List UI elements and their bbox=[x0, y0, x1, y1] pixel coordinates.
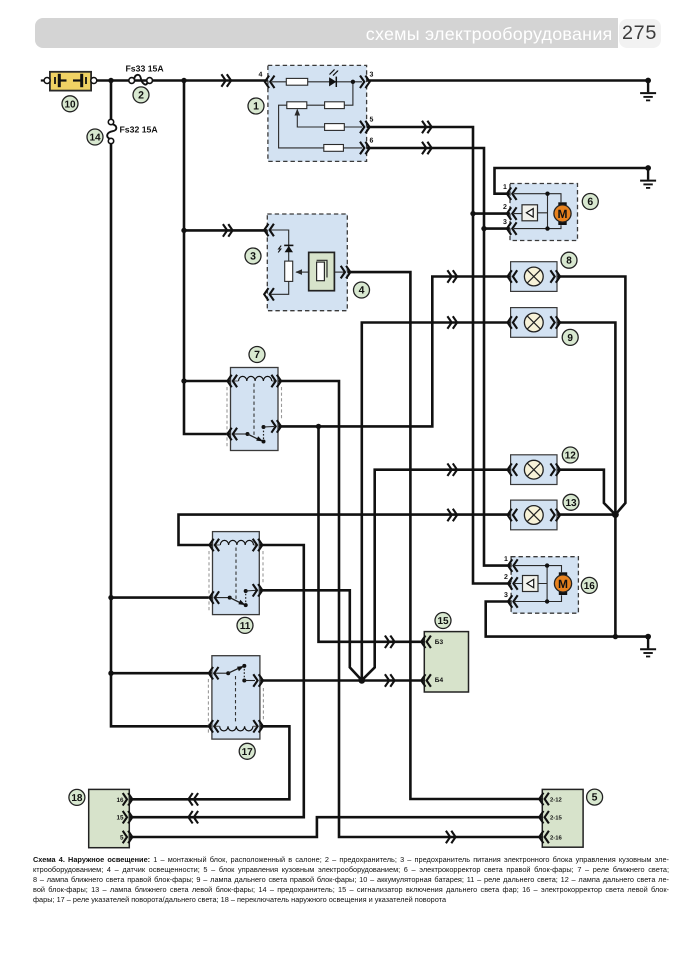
relay 7 (low beam relay) bbox=[227, 368, 282, 451]
node bus 184 / block3 feed bbox=[181, 228, 186, 233]
chevron on lamp 12 feed wire bbox=[448, 464, 457, 475]
wire block1 R4 to pin5 bbox=[344, 126, 362, 128]
label 5 bbox=[587, 789, 603, 805]
lamp 9 (high beam right) bbox=[508, 308, 561, 338]
wiper arrow of resistor R2 bbox=[295, 109, 301, 116]
light arrows above diode bbox=[330, 70, 338, 76]
ground top right (for block1 pin3 line) bbox=[640, 78, 656, 101]
wire node B3: relay7 out branch down to block 15 pin B3 bbox=[319, 426, 424, 641]
pin numbers of block 1 bbox=[259, 72, 374, 145]
chevron on lamp 9 feed wire bbox=[448, 317, 457, 328]
wire block1 row pin4 to diode to pin3 bbox=[272, 81, 362, 83]
lamp 8 (low beam right) bbox=[508, 262, 561, 292]
motor M of corrector 16 bbox=[559, 572, 567, 577]
svg-text:M: M bbox=[558, 207, 568, 221]
wire block1 wiper to R4 bbox=[297, 110, 324, 128]
label 4 bbox=[354, 282, 370, 298]
zener diode of block 3 bbox=[285, 246, 293, 252]
wire block1 pin3 to ground (y=80.5) bbox=[366, 79, 648, 82]
node bus 184 top bbox=[181, 78, 186, 83]
wire relay 11 coil out down to connector 18 pin 15 bbox=[131, 545, 304, 817]
connector 5 (body control unit) bbox=[539, 789, 583, 847]
corrector control unit (triangle) of block 16 bbox=[523, 576, 539, 592]
label 13 bbox=[563, 494, 579, 510]
wire relay 11 contact out to node B4 (via x=350 down) bbox=[261, 590, 362, 680]
ground bottom right (for block 16 pin3 line) bbox=[640, 634, 656, 657]
svg-text:1: 1 bbox=[503, 184, 507, 191]
svg-text:13: 13 bbox=[565, 498, 577, 509]
block 3 dashed box with light sensor bbox=[264, 214, 350, 311]
svg-text:Б4: Б4 bbox=[435, 677, 444, 684]
wire lamp 12 out to lamps common node bbox=[558, 470, 615, 515]
svg-text:2-12: 2-12 bbox=[550, 797, 563, 804]
resistor R2 (potentiometer) bbox=[287, 102, 307, 109]
resistor R4 bbox=[325, 124, 345, 131]
label 12 bbox=[562, 447, 578, 463]
svg-text:5: 5 bbox=[592, 792, 598, 804]
fuse 2 (Fs33 15A) bbox=[126, 64, 165, 85]
lamp 12 (high beam left) bbox=[508, 455, 561, 485]
svg-text:M: M bbox=[558, 577, 568, 591]
relay 17 (turn/high beam relay, inverted) bbox=[208, 656, 263, 739]
svg-text:6: 6 bbox=[587, 196, 593, 208]
coil of relay 11 bbox=[220, 540, 253, 545]
svg-text:3: 3 bbox=[370, 72, 374, 79]
resistor R1 bbox=[286, 78, 307, 85]
chevron on block3 feed wire bbox=[224, 225, 233, 236]
label 8 bbox=[561, 252, 577, 268]
svg-text:10: 10 bbox=[64, 99, 76, 110]
connector 18 (light switch) bbox=[89, 789, 133, 847]
svg-text:2: 2 bbox=[504, 574, 508, 581]
chevron on lamp 8 feed wire bbox=[448, 271, 457, 282]
pin chevrons of block 16 bbox=[508, 560, 517, 571]
svg-text:2: 2 bbox=[503, 204, 507, 211]
wire block1 diode node down to R3 bbox=[344, 82, 353, 105]
wire relay 7 coil out down to connector 5 pin 2-16 bbox=[279, 381, 544, 837]
wire bus from battery junction down through fuse 14 to relay 17 coil bbox=[111, 81, 210, 727]
node bus 111 / relay17 input bbox=[108, 671, 113, 676]
wire bus x=184 to block 3 input (y=230.4) bbox=[184, 229, 269, 232]
wire bus x=184 to relay 7 coil (y=381) bbox=[184, 380, 229, 383]
wire block 16 pin 3 to ground line y=634 bbox=[486, 602, 648, 637]
pin chevrons of block 6 bbox=[507, 188, 516, 199]
chevron on block1 pin5 wire bbox=[423, 122, 432, 133]
chevron on battery-block1 wire bbox=[222, 75, 231, 86]
label 7 bbox=[249, 347, 265, 363]
label 2 bbox=[133, 87, 149, 103]
block 16 internal wiring bbox=[515, 566, 562, 602]
svg-text:3: 3 bbox=[250, 251, 256, 263]
wire node B4: relay 17 contact out to block 15 pin B4 bbox=[261, 679, 423, 682]
actuator dashed link bbox=[253, 384, 255, 437]
battery 10 bbox=[41, 72, 97, 91]
wire lamp 12 feed from node B4 (via x=374 down) bbox=[362, 470, 510, 681]
label 10 bbox=[62, 96, 78, 112]
wiper arrowhead bbox=[295, 269, 302, 275]
label 18 bbox=[69, 789, 85, 805]
wire sensor output to pin 4 bbox=[334, 271, 344, 273]
caption text bbox=[33, 855, 669, 906]
label 11 bbox=[237, 617, 253, 633]
node lamps common bbox=[612, 511, 619, 518]
block 6 internal wiring bbox=[514, 194, 561, 229]
fuse 14 (Fs32 15A) bbox=[107, 119, 158, 143]
svg-text:4: 4 bbox=[359, 285, 365, 297]
motor M of corrector 6 bbox=[558, 202, 566, 207]
label 6 bbox=[582, 194, 598, 210]
resistor R5 bbox=[324, 145, 344, 152]
svg-text:5: 5 bbox=[370, 117, 374, 124]
pin chevrons of relay 7 bbox=[227, 376, 236, 387]
wire block1 pin6 down to block 16 pin 1 bbox=[366, 148, 513, 566]
chevron on block1 pin6 wire bbox=[423, 143, 432, 154]
svg-text:1: 1 bbox=[253, 101, 259, 113]
label 17 bbox=[239, 743, 255, 759]
svg-text:Б3: Б3 bbox=[435, 639, 444, 646]
wire lamp 8 out to lamps common node bbox=[558, 277, 625, 515]
lightning mark bbox=[278, 246, 281, 253]
label 14 bbox=[87, 129, 103, 145]
svg-text:14: 14 bbox=[89, 133, 101, 144]
wire relay 7 contact out to lamp 8 feed (via x=432.3 up) bbox=[279, 277, 510, 427]
chevron on node B3 wire bbox=[386, 636, 395, 647]
contact of relay 11 bbox=[216, 597, 230, 599]
chevron on wire 2-16 bbox=[447, 832, 456, 843]
node bus 184 / relay7 coil bbox=[181, 378, 186, 383]
block 16 (headlight corrector left) bbox=[504, 556, 578, 613]
node B4 bbox=[358, 677, 365, 684]
label 15 bbox=[435, 613, 451, 629]
wire sensor to pot (wiper) bbox=[296, 271, 309, 273]
junction dot inside block1 bbox=[351, 80, 355, 84]
wire lamp 9 out down to lamps common node and ground line bbox=[558, 323, 615, 637]
socket dashed guides bbox=[227, 387, 282, 448]
svg-text:2-15: 2-15 bbox=[550, 815, 563, 822]
svg-text:15: 15 bbox=[116, 815, 124, 822]
label 16 bbox=[581, 577, 597, 593]
svg-text:Fs32 15A: Fs32 15A bbox=[120, 124, 159, 134]
resistor R3 bbox=[325, 102, 345, 109]
node bus 484 / block6 pin3 bbox=[481, 226, 486, 231]
svg-text:1: 1 bbox=[504, 556, 508, 563]
wire bus x=111 to relay 11 contact input (y=597.6) bbox=[111, 596, 212, 599]
label 9 bbox=[562, 329, 578, 345]
wire relay 17 coil out down to connector 18 pin 16 bbox=[131, 726, 290, 799]
wire block 6 pin 3 from bus x=484 bbox=[484, 227, 512, 230]
wire block1 R5 to pin6 bbox=[343, 147, 362, 149]
coil of relay 7 bbox=[239, 376, 272, 381]
wire block1 pin5 down to block 16 pin 2 bbox=[366, 127, 513, 584]
relay 11 (high beam relay) bbox=[209, 532, 263, 615]
wire connector 18 pin 5 to connector 5 pin 2-15 bbox=[131, 817, 544, 837]
wire battery to block1 pin4 (top feed, y=80.5) bbox=[97, 79, 269, 82]
pin numbers of block 16 bbox=[504, 556, 508, 599]
svg-text:4: 4 bbox=[259, 72, 263, 79]
block 15 (high beam indicator) bbox=[421, 632, 468, 692]
node lamps vertical / ground line bbox=[613, 634, 618, 639]
contact of relay 7 bbox=[234, 433, 248, 435]
lamp 13 (low beam left) bbox=[508, 500, 561, 530]
svg-text:15: 15 bbox=[437, 616, 449, 627]
node battery junction bbox=[108, 78, 113, 83]
svg-text:3: 3 bbox=[503, 219, 507, 226]
diode VD1 bbox=[329, 77, 336, 86]
label 1 bbox=[248, 98, 264, 114]
pin numbers of block 6 bbox=[503, 184, 507, 226]
svg-text:16: 16 bbox=[116, 797, 124, 804]
svg-text:5: 5 bbox=[120, 835, 124, 842]
wire bus x=111 to relay 17 contact input (y=673.2) bbox=[111, 672, 211, 675]
chevron on row 15 wire bbox=[188, 812, 197, 823]
wire block 6 pin 2 from bus x=473 bbox=[473, 212, 512, 215]
node bus 473 / block6 pin2 bbox=[470, 211, 475, 216]
wire block1 R2 left to R5 bbox=[279, 105, 324, 148]
svg-text:3: 3 bbox=[504, 592, 508, 599]
chevron on node B4 wire bbox=[386, 675, 395, 686]
wire block 3 sensor output down to connector 5 pin 2-12 bbox=[348, 272, 544, 799]
wire block3 top pin down through diode to pot bbox=[271, 230, 289, 261]
light sensor 4 (green box) bbox=[309, 252, 335, 290]
wire block1 R2-R3 link bbox=[307, 104, 325, 106]
svg-text:6: 6 bbox=[370, 138, 374, 145]
svg-text:12: 12 bbox=[565, 451, 577, 462]
page number bbox=[619, 19, 661, 48]
wire bus x=184 from top wire down to relay 7 contact input bbox=[184, 81, 229, 435]
ground for block 6 pin1 line bbox=[640, 165, 656, 188]
svg-text:16: 16 bbox=[584, 581, 596, 592]
resistor (photo potentiometer) of block 3 bbox=[285, 261, 293, 281]
svg-text:7: 7 bbox=[254, 349, 260, 361]
svg-text:9: 9 bbox=[567, 333, 573, 344]
chevron on lamp 13 feed wire bbox=[448, 510, 457, 521]
svg-text:8: 8 bbox=[566, 256, 572, 267]
chevron on row 16 wire bbox=[188, 794, 197, 805]
coil of relay 17 (bottom) bbox=[220, 726, 253, 731]
svg-text:11: 11 bbox=[240, 621, 251, 632]
corrector control unit (triangle) bbox=[522, 205, 538, 221]
label 3 bbox=[245, 248, 261, 264]
node bus 111 / relay11 input bbox=[108, 595, 113, 600]
block 1 (monture block) dashed box bbox=[259, 65, 374, 161]
contact of relay 17 bbox=[216, 672, 229, 674]
svg-text:Fs33 15A: Fs33 15A bbox=[126, 64, 165, 74]
svg-text:2: 2 bbox=[138, 89, 144, 101]
header bar bbox=[35, 18, 618, 48]
block 6 (headlight corrector right) bbox=[503, 184, 578, 241]
svg-text:17: 17 bbox=[242, 747, 254, 758]
svg-text:2-16: 2-16 bbox=[550, 835, 563, 842]
pin chevrons of block 3 bbox=[264, 225, 273, 236]
wire block 6 pin 1 to ground (via y=168) bbox=[495, 168, 649, 194]
node relay7 out / B3 branch bbox=[316, 424, 321, 429]
wire lamp 13 line from relay 11 coil elbow to lamps common node bbox=[179, 515, 616, 545]
svg-text:18: 18 bbox=[71, 793, 83, 804]
wire block3 pot bottom to bottom pin bbox=[271, 281, 289, 294]
pin chevrons of block 1 bbox=[265, 76, 274, 87]
wire lamp 9 feed from node B4 vertical x=362 bbox=[362, 323, 510, 681]
